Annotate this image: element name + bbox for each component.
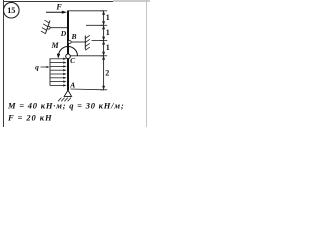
- svg-text:q: q: [35, 63, 39, 72]
- svg-text:M: M: [50, 41, 59, 50]
- svg-text:1: 1: [106, 43, 110, 52]
- svg-text:2: 2: [105, 69, 109, 78]
- svg-text:15: 15: [7, 6, 15, 15]
- svg-text:A: A: [69, 81, 75, 90]
- svg-text:F = 20 кН: F = 20 кН: [7, 113, 53, 123]
- svg-text:D: D: [60, 29, 67, 38]
- svg-text:1: 1: [106, 13, 110, 22]
- svg-text:1: 1: [106, 28, 110, 37]
- svg-text:B: B: [70, 32, 76, 41]
- svg-text:М = 40 кН·м; q = 30 кН/м;: М = 40 кН·м; q = 30 кН/м;: [7, 101, 125, 111]
- svg-text:F: F: [55, 2, 62, 11]
